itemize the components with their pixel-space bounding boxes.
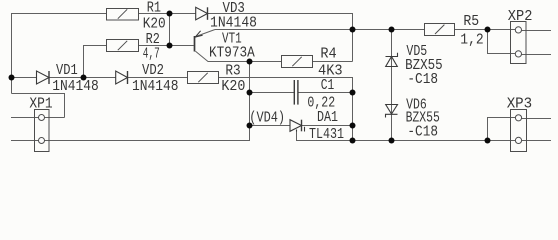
svg-text:4,7: 4,7 xyxy=(143,47,160,63)
svg-text:K20: K20 xyxy=(143,16,166,32)
wire XP3 pin1 out right xyxy=(518,118,551,120)
wire R3 right to corner, down mid column xyxy=(219,78,353,141)
wire DA1 anode xyxy=(250,125,291,127)
wire emitter rail y29.5 xyxy=(215,29,353,31)
svg-text:0,22: 0,22 xyxy=(307,95,335,111)
zener VD6 xyxy=(386,105,398,115)
wire C1 right xyxy=(298,92,353,94)
wire R1-R2 junction column xyxy=(169,14,171,46)
svg-text:VD2: VD2 xyxy=(142,63,164,79)
svg-text:1N4148: 1N4148 xyxy=(210,16,257,32)
svg-text:KT973A: KT973A xyxy=(209,46,255,62)
node emitter rail xyxy=(350,27,356,33)
svg-text:TL431: TL431 xyxy=(309,127,344,143)
wire VT1 collector diagonal and run to R4 xyxy=(196,51,282,61)
svg-text:R3: R3 xyxy=(225,63,240,79)
wire diode rail left to VD1 xyxy=(12,77,37,79)
wire XP2 riser to pin2 xyxy=(488,30,520,54)
connector XP1 body xyxy=(35,110,50,152)
node DA1 anode xyxy=(247,123,253,129)
wire bottom rail left, riser to DA1 anode node xyxy=(11,126,250,141)
wire VD2 to R3 xyxy=(128,77,188,79)
connector XP3 body xyxy=(511,110,527,152)
wire C1-DA1 column x249.5 xyxy=(249,62,251,126)
svg-text:4K3: 4K3 xyxy=(318,63,343,79)
svg-text:DA1: DA1 xyxy=(317,110,338,126)
wire VD3 to top-right corner down to R4 corner xyxy=(208,14,353,62)
svg-text:C1: C1 xyxy=(321,78,335,94)
node VD5 top xyxy=(389,27,395,33)
diode VD1 xyxy=(37,71,50,84)
svg-text:R1: R1 xyxy=(147,0,161,16)
svg-text:XP1: XP1 xyxy=(29,96,52,112)
wire bottom rail right xyxy=(353,140,520,142)
node R1 right xyxy=(167,11,173,17)
shunt regulator DA1 (TL431) xyxy=(290,120,302,132)
svg-text:R5: R5 xyxy=(463,14,479,30)
wire C1 left xyxy=(250,92,295,94)
wire VD1 to VD2 xyxy=(49,77,116,79)
node R5 right xyxy=(485,27,491,33)
svg-text:1N4148: 1N4148 xyxy=(52,79,99,95)
wire top-left corner to R1 xyxy=(12,14,107,94)
svg-text:1N4148: 1N4148 xyxy=(132,79,179,95)
svg-text:VD3: VD3 xyxy=(223,1,245,17)
wire emitter node to R5 xyxy=(353,29,425,31)
node VD1-VD2 xyxy=(81,75,87,81)
resistor R2 xyxy=(107,40,139,52)
svg-text:(VD4): (VD4) xyxy=(249,110,285,126)
svg-text:R4: R4 xyxy=(320,46,336,62)
node C1 left xyxy=(247,90,253,96)
wire XP1 pin1 row xyxy=(11,117,65,119)
svg-text:XP2: XP2 xyxy=(508,9,533,25)
wire XP3 riser to pin1 xyxy=(488,118,520,141)
svg-text:1,2: 1,2 xyxy=(460,32,483,48)
connector XP2 body xyxy=(511,22,527,64)
wire R2 right to VT1 base xyxy=(139,45,194,47)
wire R4 right to corner xyxy=(313,61,353,63)
connector XP1 pin 1 xyxy=(39,115,45,121)
wire R5 to XP2 pin1 xyxy=(455,29,520,31)
svg-text:VD1: VD1 xyxy=(56,63,78,79)
transistor VT1 emitter arrow xyxy=(195,31,202,37)
wire XP2 pin1 out right xyxy=(518,30,551,32)
wire zener column x391.5 xyxy=(391,30,393,141)
node collector R4 xyxy=(247,59,253,65)
resistor R5 xyxy=(425,24,455,36)
connector XP3 pin 2 xyxy=(515,137,521,143)
resistor R3 xyxy=(188,72,219,84)
svg-text:K20: K20 xyxy=(221,79,245,95)
capacitor C1 xyxy=(293,80,295,105)
svg-text:XP3: XP3 xyxy=(507,97,533,113)
node R2 right base xyxy=(167,43,173,49)
wire XP3 pin2 out right xyxy=(518,140,551,142)
connector XP1 pin 2 xyxy=(39,138,45,144)
node XP3 rail xyxy=(485,138,491,144)
svg-text:R2: R2 xyxy=(146,32,160,48)
node bottom mid xyxy=(350,138,356,144)
wire R2 left drop to diode rail xyxy=(84,46,107,78)
wire DA1 ref loop xyxy=(297,130,353,141)
connector XP3 pin 1 xyxy=(515,115,521,121)
wire VT1 emitter diagonal xyxy=(196,30,216,37)
zener VD5 xyxy=(386,57,398,67)
connector XP2 pin 1 xyxy=(515,27,521,33)
node left rail xyxy=(9,75,15,81)
svg-text:-C18: -C18 xyxy=(407,72,438,88)
wire R1 to VD3 xyxy=(139,13,197,15)
svg-text:-C18: -C18 xyxy=(407,124,438,140)
resistor R4 xyxy=(282,56,313,68)
wire XP1 branch from left column xyxy=(12,94,65,118)
node DA1 cathode xyxy=(350,123,356,129)
wire XP2 pin2 out right xyxy=(518,54,551,56)
transistor VT1 base bar xyxy=(194,36,196,52)
diode VD2 xyxy=(116,71,128,84)
connector XP2 pin 2 xyxy=(515,51,521,57)
resistor R1 xyxy=(107,9,139,21)
node C1 right xyxy=(350,90,356,96)
node VD6 bottom xyxy=(389,138,395,144)
wire DA1 cathode to mid column xyxy=(302,125,353,127)
diode VD3 xyxy=(196,7,208,19)
